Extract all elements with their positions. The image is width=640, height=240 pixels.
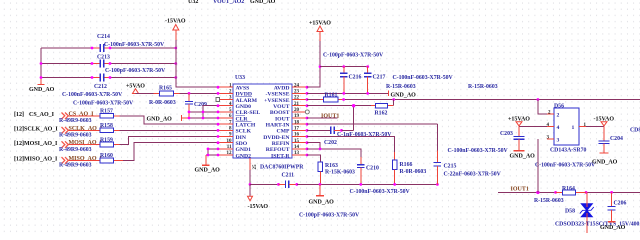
svg-text:C-100pF-0603-X7R-50V: C-100pF-0603-X7R-50V: [299, 213, 360, 219]
capacitor C215: [434, 124, 502, 184]
wire: VOUT pin21 to R162: [307, 105, 371, 107]
wire: main output net (row3) to right edge: [344, 99, 640, 101]
resistor R161: [307, 93, 344, 102]
capacitor C209: [73, 93, 207, 118]
svg-text:GND_AO: GND_AO: [510, 154, 536, 160]
wire: R158 to SCLK pin8: [120, 129, 219, 131]
capacitor C202 on CMP pin17: [307, 127, 392, 146]
svg-text:22: 22: [294, 96, 300, 101]
wire: R160 to SDO pin10: [123, 143, 218, 161]
svg-text:VOUT: VOUT: [273, 104, 290, 110]
svg-text:GND_AO: GND_AO: [250, 0, 276, 5]
wire: ground bus under chip area: [297, 183, 438, 185]
svg-text:DAC8760IPWPR: DAC8760IPWPR: [260, 165, 304, 171]
svg-text:CS_AO_I: CS_AO_I: [69, 111, 95, 117]
svg-text:[12]: [12]: [14, 127, 24, 133]
U33 left pin numbers: [227, 83, 233, 156]
svg-text:DVDD-EN: DVDD-EN: [263, 135, 290, 141]
svg-text:SCLK_AO_I: SCLK_AO_I: [69, 126, 103, 132]
resistor R158: [59, 123, 120, 139]
svg-text:11: 11: [227, 145, 232, 150]
svg-text:C-100nF-0603-X7R-50V: C-100nF-0603-X7R-50V: [393, 75, 454, 81]
svg-text:R-15K-0603: R-15K-0603: [325, 170, 355, 176]
capacitor C216: [323, 53, 384, 94]
no-connect circle on pin20 BOOST: [305, 110, 309, 114]
svg-text:R161: R161: [325, 93, 338, 99]
svg-text:C-100nF-0603-X7R-50V: C-100nF-0603-X7R-50V: [104, 42, 165, 48]
svg-text:C210: C210: [366, 166, 379, 172]
svg-text:C215: C215: [444, 164, 457, 170]
svg-text:GND_AO: GND_AO: [29, 87, 55, 93]
wire: D56 pin3 down to IOUT1: [537, 139, 539, 193]
svg-text:R160: R160: [100, 153, 113, 159]
resistor R166 vertical: [392, 152, 426, 185]
svg-text:R158: R158: [100, 123, 113, 129]
svg-text:-15VAO: -15VAO: [165, 19, 186, 25]
svg-text:C-100nF-0603-X7R-50V: C-100nF-0603-X7R-50V: [73, 101, 134, 107]
svg-text:GND_AO: GND_AO: [309, 200, 335, 206]
svg-text:LATCH: LATCH: [236, 123, 256, 129]
svg-text:18: 18: [294, 120, 300, 125]
ground GND_AO left: [29, 78, 55, 94]
svg-text:C-100nF-0603-X7R-50V: C-100nF-0603-X7R-50V: [350, 189, 411, 195]
svg-text:2: 2: [557, 113, 560, 119]
svg-text:23: 23: [294, 90, 300, 95]
svg-text:13: 13: [294, 151, 300, 156]
power port GND_AO middle: [147, 115, 191, 122]
capacitor C211 on pad net: [250, 173, 360, 219]
svg-text:R-49R9-0603: R-49R9-0603: [59, 147, 92, 153]
svg-text:-VSENSE: -VSENSE: [265, 92, 289, 98]
svg-text:20: 20: [294, 108, 300, 113]
svg-text:R165: R165: [159, 86, 172, 92]
svg-text:D56: D56: [554, 104, 564, 110]
wire: +5VAO to R165: [136, 92, 154, 94]
resistor R163 vertical: [318, 162, 355, 185]
wire: branch to C216/C217 tops: [320, 66, 368, 68]
svg-text:GND_AO: GND_AO: [391, 92, 417, 98]
diode network D56: [547, 104, 587, 154]
svg-text:C-1nF-0603-X7R-50V: C-1nF-0603-X7R-50V: [337, 132, 392, 138]
svg-text:-15VAO: -15VAO: [248, 204, 269, 210]
svg-text:CD8: CD8: [630, 128, 640, 134]
svg-text:BOOST: BOOST: [270, 110, 290, 116]
svg-text:R-15R-0603: R-15R-0603: [534, 198, 564, 204]
svg-text:4: 4: [557, 125, 560, 131]
wire: -VSENSE pin23 to GND port: [307, 92, 388, 94]
wire: CLR-SEL pin5 branch: [189, 111, 218, 113]
power -15VAO at D56 pin1: [586, 117, 614, 127]
svg-text:1: 1: [572, 125, 575, 131]
svg-text:C202: C202: [324, 140, 337, 146]
resistor R159: [59, 137, 120, 153]
svg-text:SDO: SDO: [236, 141, 248, 147]
wire: ISET-R pin13 to R163: [307, 155, 320, 162]
svg-text:GND1: GND1: [236, 147, 252, 153]
svg-text:C217: C217: [373, 75, 386, 81]
svg-text:U33: U33: [235, 75, 245, 81]
svg-text:R157: R157: [100, 109, 113, 115]
svg-text:GND_AO: GND_AO: [600, 225, 626, 231]
wire: cap ladder row1: [41, 47, 176, 49]
capacitor C212: [62, 74, 123, 98]
U33 right pin numbers: [294, 83, 300, 156]
capacitor C203: [448, 126, 536, 159]
svg-text:C-100pF-0603-X7R-50V: C-100pF-0603-X7R-50V: [105, 68, 166, 74]
svg-text:R-0R-0603: R-0R-0603: [149, 100, 176, 106]
svg-text:GND_AO: GND_AO: [592, 160, 618, 166]
wire: GND to CLR pin6: [190, 117, 218, 119]
svg-text:CDSOD323-T15SC(TVS_15V/400: CDSOD323-T15SC(TVS_15V/400: [555, 221, 639, 228]
svg-text:3: 3: [557, 138, 560, 144]
resistor R157: [59, 109, 120, 125]
svg-text:19: 19: [294, 114, 300, 119]
wire: cap ladder row3: [41, 77, 176, 79]
power +15VAO at D56: [508, 117, 547, 127]
svg-text:C206: C206: [614, 201, 627, 207]
svg-text:CS_AO_I: CS_AO_I: [29, 112, 55, 118]
wire: R157 to LATCH pin7: [120, 116, 219, 124]
resistor R160: [59, 153, 123, 169]
svg-text:GND2: GND2: [236, 153, 252, 159]
svg-text:16: 16: [294, 133, 300, 138]
svg-text:D58: D58: [565, 209, 575, 215]
svg-text:C-100nF-0603-X7R-50V: C-100nF-0603-X7R-50V: [535, 162, 596, 168]
junctions near C209/GND: [188, 111, 191, 114]
wire: DVDD-EN pin16 to R166: [307, 137, 395, 153]
U33 right pin stubs: [292, 87, 307, 155]
ground GND_AO below chip: [195, 155, 221, 174]
U33 pin-end junction dots left: [217, 86, 220, 157]
capacitor C210: [350, 157, 411, 195]
svg-text:MISO_AO_I: MISO_AO_I: [69, 156, 103, 162]
port MOSI_AO_I: [14, 140, 103, 148]
svg-text:CMP: CMP: [277, 129, 290, 135]
svg-text:AVSS: AVSS: [236, 86, 250, 92]
U33 pin-end junction dots right: [306, 86, 309, 157]
svg-text:MISO_AO_I: MISO_AO_I: [24, 157, 58, 163]
U33 left pin stubs: [218, 87, 233, 155]
svg-text:21: 21: [294, 102, 300, 107]
svg-text:R-0R-0603: R-0R-0603: [400, 169, 427, 175]
wire: GND1/GND2 to ground: [206, 149, 218, 155]
op-amp U33 chip body: [233, 75, 304, 171]
svg-text:[12]: [12]: [14, 141, 24, 147]
svg-text:R164: R164: [562, 186, 575, 192]
svg-text:U32: U32: [188, 0, 198, 5]
svg-text:C-100nF-0603-X7R-50V: C-100nF-0603-X7R-50V: [62, 92, 123, 98]
wire: REFOUT pin14 to C210: [307, 149, 361, 157]
svg-text:C-100pF-0603-X7R-50V: C-100pF-0603-X7R-50V: [323, 53, 384, 59]
svg-text:14: 14: [294, 145, 300, 150]
svg-text:R166: R166: [400, 162, 413, 168]
resistor R164: [534, 186, 586, 204]
power -15VAO top: [165, 19, 186, 41]
svg-text:C211: C211: [282, 173, 295, 179]
svg-text:[12]: [12]: [14, 157, 24, 163]
svg-text:SCLK_AO_I: SCLK_AO_I: [24, 127, 58, 133]
no-connect square on pin3 ALARM: [216, 98, 220, 102]
capacitor C206: [600, 192, 626, 231]
capacitor C217: [364, 67, 454, 94]
power +15VAO top: [309, 21, 331, 42]
clipped title text at top edge: [188, 0, 276, 5]
svg-text:MOSI_AO_I: MOSI_AO_I: [69, 140, 103, 146]
svg-text:15: 15: [294, 139, 300, 144]
svg-text:R-15R-0603: R-15R-0603: [468, 84, 498, 90]
power port GND_AO right of caps: [386, 84, 416, 98]
svg-text:IOUT: IOUT: [275, 116, 290, 122]
svg-text:REFIN: REFIN: [272, 141, 291, 147]
svg-text:DIN: DIN: [236, 135, 247, 141]
svg-text:R163: R163: [325, 163, 338, 169]
wire: +15VAO down to AVDD pin24: [307, 41, 320, 87]
svg-text:R-15R-0603: R-15R-0603: [386, 84, 416, 90]
svg-text:12: 12: [227, 151, 233, 156]
svg-text:[12]: [12]: [14, 112, 24, 118]
svg-text:C213: C213: [97, 55, 110, 61]
power +5VAO: [126, 84, 145, 94]
svg-text:R-49R9-0603: R-49R9-0603: [59, 163, 92, 169]
wire: HART-IN pin18 to C215: [307, 123, 437, 125]
U33 thermal pad pin 25: [249, 158, 258, 186]
svg-text:HART-IN: HART-IN: [266, 123, 291, 129]
TVS diode D58: [555, 192, 639, 233]
port MISO_AO_I: [14, 156, 103, 164]
svg-text:IOUT1: IOUT1: [321, 113, 339, 119]
svg-text:ISET-R: ISET-R: [271, 153, 290, 159]
capacitor C213: [91, 55, 166, 75]
svg-text:AVDD: AVDD: [274, 86, 290, 92]
wire: R165 to DVDD pin2: [180, 92, 219, 94]
port CS_AO_I: [14, 111, 94, 119]
svg-text:REFOUT: REFOUT: [266, 147, 290, 153]
svg-text:R-49R9-0603: R-49R9-0603: [59, 118, 92, 124]
svg-text:ALARM: ALARM: [236, 98, 258, 104]
svg-text:MOSI_AO_I: MOSI_AO_I: [24, 141, 58, 147]
port SCLK_AO_I: [14, 126, 103, 134]
U33 right pin names: [263, 86, 290, 160]
wire: -15VAO bus down to AVSS: [176, 40, 218, 87]
svg-text:C209: C209: [194, 102, 207, 108]
svg-text:CD143A-SR70: CD143A-SR70: [550, 148, 586, 154]
net label IOUT1 at pin19: [307, 113, 339, 119]
svg-text:24: 24: [294, 83, 300, 88]
wire: GND0 pin4 branch: [203, 106, 218, 118]
svg-text:C-100nF-0603-X7R-50V: C-100nF-0603-X7R-50V: [448, 148, 509, 154]
svg-text:C204: C204: [610, 136, 623, 142]
capacitor C204: [535, 126, 623, 168]
wire: REFIN pin15 jog to REFOUT: [307, 143, 320, 149]
svg-text:C-22nF-0603-X7R-50V: C-22nF-0603-X7R-50V: [444, 172, 502, 178]
svg-text:R162: R162: [375, 111, 388, 117]
wire: CMP branch up to output net: [353, 106, 355, 131]
wire: R162 up to output net: [393, 100, 395, 106]
resistor R165: [149, 86, 180, 107]
svg-text:C216: C216: [349, 75, 362, 81]
svg-text:+VSENSE: +VSENSE: [264, 98, 290, 104]
net label IOUT1 output wire: [498, 187, 640, 195]
svg-text:10: 10: [227, 139, 233, 144]
svg-text:IOUT1: IOUT1: [511, 187, 529, 193]
power -15VAO below pad: [248, 184, 269, 210]
svg-text:C212: C212: [94, 84, 107, 90]
wire: cap ladder row2: [41, 63, 176, 65]
wire: main net down to D56 pin2: [538, 100, 547, 114]
wire: R159 to DIN pin9: [120, 137, 219, 145]
svg-text:SCLK: SCLK: [236, 129, 252, 135]
junction dots on cap ladder: [40, 62, 43, 65]
svg-text:C203: C203: [500, 131, 513, 137]
svg-text:VOUT_AO2: VOUT_AO2: [213, 0, 244, 5]
ground GND_AO on bus: [309, 184, 335, 205]
svg-text:GND_AO: GND_AO: [195, 168, 221, 174]
svg-text:GND0: GND0: [236, 104, 252, 110]
svg-text:R-49R9-0603: R-49R9-0603: [59, 133, 92, 139]
svg-text:25: 25: [253, 164, 258, 170]
U33 left pin names: [236, 86, 261, 160]
svg-text:R159: R159: [100, 137, 113, 143]
wire: left vertical bus of cap ladder: [40, 48, 42, 78]
svg-text:17: 17: [294, 127, 300, 132]
svg-text:C214: C214: [97, 34, 110, 40]
svg-text:GND_AO: GND_AO: [147, 117, 173, 123]
capacitor C214: [91, 34, 165, 52]
resistor R162: [371, 103, 394, 116]
